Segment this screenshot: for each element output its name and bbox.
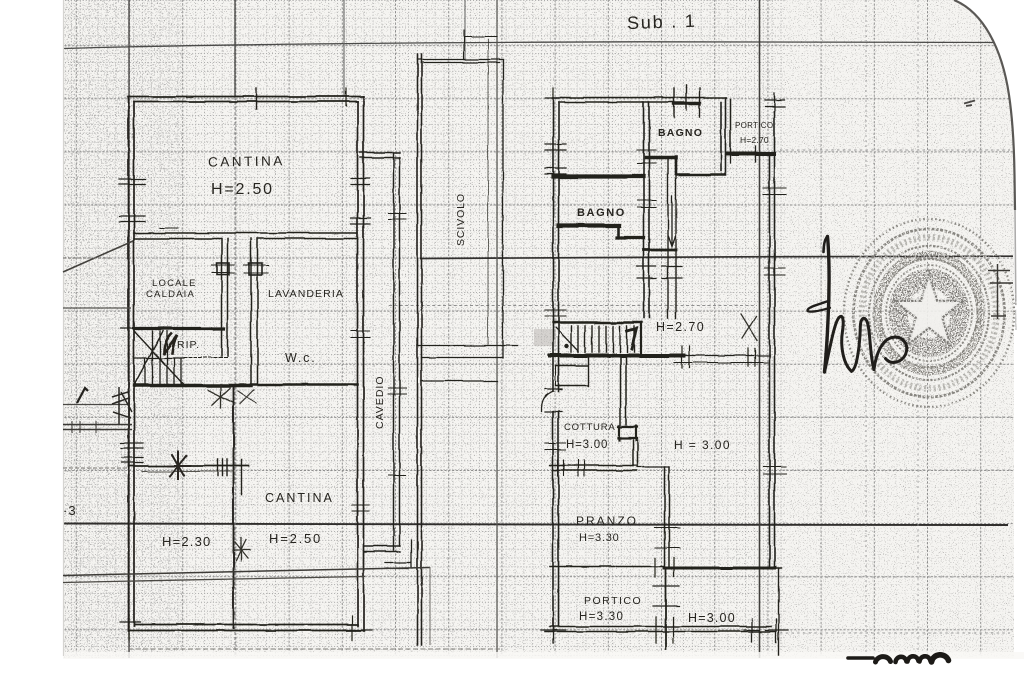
interior wall vertical x221-227 (222, 239, 228, 357)
scivolo inner vertical x488 (487, 40, 489, 345)
stair door pencil mark (164, 334, 177, 353)
cavedio wall ticks (388, 213, 406, 475)
BAGNO(top) right wall (double) (721, 98, 726, 175)
signature tall stroke (825, 237, 830, 373)
outer wall right (double) (358, 97, 364, 632)
left margin: horizontal line y468 (63, 467, 130, 469)
central wall vertical lower (633, 440, 638, 466)
BAGNO2 step vertical (617, 226, 620, 237)
medium graph horizontal y~305 mid-right (389, 305, 757, 307)
heavy graph line horizontal y~257 (right portion) (420, 256, 1013, 258)
PORTICO divider vertical (665, 568, 667, 649)
svg-text:RIP.: RIP. (177, 339, 200, 351)
pencil cross near right wall at stair level (741, 314, 757, 340)
svg-text:PORTICO: PORTICO (584, 595, 642, 607)
small fixture marks on wall y233 left (160, 227, 178, 229)
outer wall left (double) (129, 97, 135, 632)
page corner edge curve (954, 0, 1015, 210)
window hash right wall mid (351, 331, 370, 338)
door jamb block right (249, 263, 262, 275)
bottom white scan band (0, 658, 1024, 682)
pencil survey line y466 (130, 465, 249, 467)
svg-text:H=2.70: H=2.70 (656, 320, 705, 334)
wall continuation to right wall (684, 355, 770, 357)
PRANZO bottom wall (550, 566, 664, 568)
BAGNO(top) left wall (double) (644, 102, 650, 318)
white outside rounded page corner (953, 0, 1024, 175)
window hash left wall y443 (121, 443, 143, 463)
svg-text:H = 3.00: H = 3.00 (674, 438, 731, 452)
stairs right edge (640, 323, 642, 357)
faint line under left plan bottom (128, 648, 500, 650)
right wall mid ticks (765, 268, 785, 275)
svg-text:·3: ·3 (63, 503, 77, 518)
window hash right wall y505 (352, 505, 369, 511)
thick wall under stairs (550, 354, 684, 358)
entry door arc on left wall (541, 391, 553, 411)
fine grid dense zone (63, 0, 785, 656)
medium graph vertical x~871 (865, 0, 867, 658)
small pencil mark top right (964, 101, 975, 107)
corner tick bottom-left (120, 614, 140, 640)
medium graph vertical x~918 (917, 0, 919, 658)
svg-text:H=2.30: H=2.30 (162, 534, 211, 549)
paper speckle punched over stamp (841, 216, 1017, 410)
BAGNO2 thick wall y237 (617, 236, 644, 239)
staircase treads (145, 331, 181, 385)
scivolo bottom band lines (418, 346, 518, 382)
svg-text:H=2.50: H=2.50 (211, 181, 274, 198)
svg-text:H=3.30: H=3.30 (579, 532, 620, 544)
interior wall horizontal y233-238 (double) (134, 232, 358, 234)
outer wall bottom (double) (129, 625, 365, 631)
signature crossbar loop (807, 301, 830, 312)
interior divider vertical x234 lower room (233, 385, 235, 628)
left wall (double) (553, 98, 559, 631)
paper left edge (63, 0, 65, 656)
faint vertical x430 bottom (429, 567, 431, 645)
shaft arrow down (669, 196, 676, 246)
PORTICO divider door ticks (653, 586, 679, 606)
heavy graph vertical x~759 (759, 0, 761, 658)
svg-text:Sub . 1: Sub . 1 (627, 11, 697, 33)
left margin: handwritten 1 (77, 388, 88, 403)
pencil cross near stair bottom (208, 384, 234, 408)
medium graph horizontal y~417 right (780, 416, 1012, 418)
stairs direction bold mark (627, 329, 637, 350)
heavy graph line horizontal y~524 (full width) (63, 524, 1008, 526)
heavy graph vertical x~129 (128, 0, 130, 660)
cavedio lower L extension (385, 540, 412, 569)
COTTURA cabinet rectangle (556, 357, 589, 386)
right wall (double) (770, 112, 775, 568)
tick crossing top wall near right corner (345, 88, 347, 106)
central wall door jamb ticks (637, 151, 656, 208)
cavedio shaft walls (double) (394, 153, 400, 551)
BAGNO2 thick wall y225 (559, 223, 620, 227)
heavy graph vertical x~497 (496, 0, 498, 682)
medium graph horizontal y~470 right (780, 469, 1015, 471)
outer wall top (double) (128, 97, 364, 102)
central dark box (618, 426, 637, 440)
PORTICO(top) right-top ticks (765, 93, 785, 112)
scivolo top closure (418, 60, 504, 63)
dark wall below top-left room (553, 174, 643, 178)
heavy graph line horizontal y~45 (wavy, full width) (63, 41, 1006, 48)
left margin: flag mark (112, 387, 132, 425)
svg-text:H=3.00: H=3.00 (688, 611, 736, 625)
stamp legend text speckle arc (862, 238, 997, 389)
window hash right wall y180 (351, 179, 370, 225)
svg-text:H=2.70: H=2.70 (740, 135, 769, 145)
window hash left wall y180 (119, 180, 145, 223)
svg-text:CANTINA: CANTINA (265, 491, 334, 505)
cavedio top closure (360, 153, 400, 158)
scivolo right vertical x503 (502, 60, 504, 359)
left margin: horizontal line y257 stub (63, 257, 110, 259)
pencil tick marks over stamp right (988, 264, 1013, 319)
svg-text:BAGNO: BAGNO (658, 127, 703, 139)
svg-text:CALDAIA: CALDAIA (146, 289, 195, 300)
tick crossing top wall x255 (255, 88, 257, 109)
svg-text:CAVEDIO: CAVEDIO (374, 376, 386, 429)
PORTICO(top) parapet thick (728, 152, 774, 156)
central wall vertical (double) below stairs (621, 357, 627, 425)
left wall window ticks (545, 144, 566, 174)
stairs top edge (553, 321, 641, 323)
stamp inner star speckle (895, 274, 963, 344)
left wall ticks lower (545, 310, 566, 316)
svg-text:H=3.30: H=3.30 (579, 611, 624, 623)
signature ink (807, 237, 906, 373)
left margin: horizontal line y308 (63, 307, 131, 309)
svg-text:PRANZO: PRANZO (576, 514, 638, 528)
svg-text:W.c.: W.c. (285, 351, 317, 365)
svg-text:LOCALE: LOCALE (152, 278, 197, 289)
shaft bottom wall (644, 248, 677, 251)
svg-text:SCIVOLO: SCIVOLO (455, 193, 467, 246)
svg-text:COTTURA: COTTURA (564, 422, 616, 433)
signature loop 2 (852, 318, 875, 371)
door jamb block left (217, 263, 229, 275)
signature loop 1 (825, 316, 852, 372)
central shaft verticals (668, 158, 676, 319)
tick pairs on survey line (218, 459, 243, 494)
asterisk pencil mark (233, 538, 250, 561)
stamp central star (895, 274, 963, 344)
corner cross marks bottom (541, 618, 565, 643)
svg-text:LAVANDERIA: LAVANDERIA (268, 288, 344, 300)
heavy graph vertical x~235 (top part dark) (234, 0, 236, 97)
stamp second ring (854, 229, 1005, 397)
svg-text:H=2.50: H=2.50 (269, 531, 322, 546)
RIP top wall (thick) (134, 327, 224, 330)
medium graph vertical x~341 top dark segment (343, 0, 345, 96)
bottom wall (double) (545, 627, 776, 632)
right wall L-corner bottom (760, 569, 781, 656)
corner tick bottom-right (344, 616, 372, 640)
stamp inner double ring (881, 259, 978, 367)
stair/WC bottom wall (thick) (134, 384, 251, 387)
tick crossing left wall at y=330 (121, 328, 141, 330)
staircase landing line (134, 357, 184, 359)
scivolo left double vertical x417-421 (418, 54, 422, 645)
BAGNO(top) bottom wall (677, 173, 726, 176)
bottom double lines under plans (63, 568, 430, 576)
medium graph vertical x~465 top segment (464, 0, 466, 60)
wall segment to PRANZO right wall (637, 466, 669, 468)
medium graph horizontal y~633 right (780, 632, 1010, 634)
top wall (double) (553, 98, 726, 103)
stamp outer dotted ring (844, 219, 1014, 407)
left margin: diagonal pencil line (63, 241, 133, 272)
left margin: double line y424-429 with hatches (63, 425, 132, 430)
stamp third ring (869, 246, 989, 380)
stairs entry diagonal + dot (556, 328, 578, 351)
PRANZO right wall (double) (665, 467, 670, 566)
PRANZO door jamb ticks (655, 528, 680, 548)
cavedio bottom closure (364, 546, 400, 552)
faint eraser smudge (534, 329, 556, 346)
BAGNO(top) lower-left thick wall (646, 156, 676, 160)
svg-text:BAGNO: BAGNO (577, 207, 626, 219)
left margin: horizontal line y404 (63, 404, 129, 406)
svg-text:CANTINA: CANTINA (208, 153, 285, 169)
interior wall vertical x250-257 (251, 239, 258, 385)
svg-text:PORTICO: PORTICO (735, 121, 773, 130)
signature tail s (874, 337, 907, 369)
PORTICO(top) left wall (730, 99, 732, 150)
door ticks on bottom wall (655, 558, 674, 577)
bottom-right cut-off letter tops (848, 655, 949, 662)
svg-text:H=3.00: H=3.00 (566, 439, 608, 451)
jamb ticks (212, 265, 268, 273)
stairs treads (571, 326, 634, 352)
medium graph horizontal y~150 right (780, 149, 1010, 151)
left scan margin (white) (0, 0, 63, 682)
medium graph horizontal y~577 right (780, 576, 1015, 578)
top-left corner tick (545, 88, 562, 108)
top marks above scivolo (464, 30, 497, 59)
BAGNO(top) step vertical (675, 158, 678, 174)
pencil cross 2 (238, 390, 256, 404)
top wall notch (thick bump) (674, 102, 700, 105)
staircase diagonals (134, 331, 184, 385)
bowtie pencil mark (168, 452, 190, 479)
ticks on that wall (682, 346, 755, 368)
stamp wreath speckle annulus (877, 255, 981, 371)
COTTURA bottom wall (double with ticks) (550, 466, 637, 471)
